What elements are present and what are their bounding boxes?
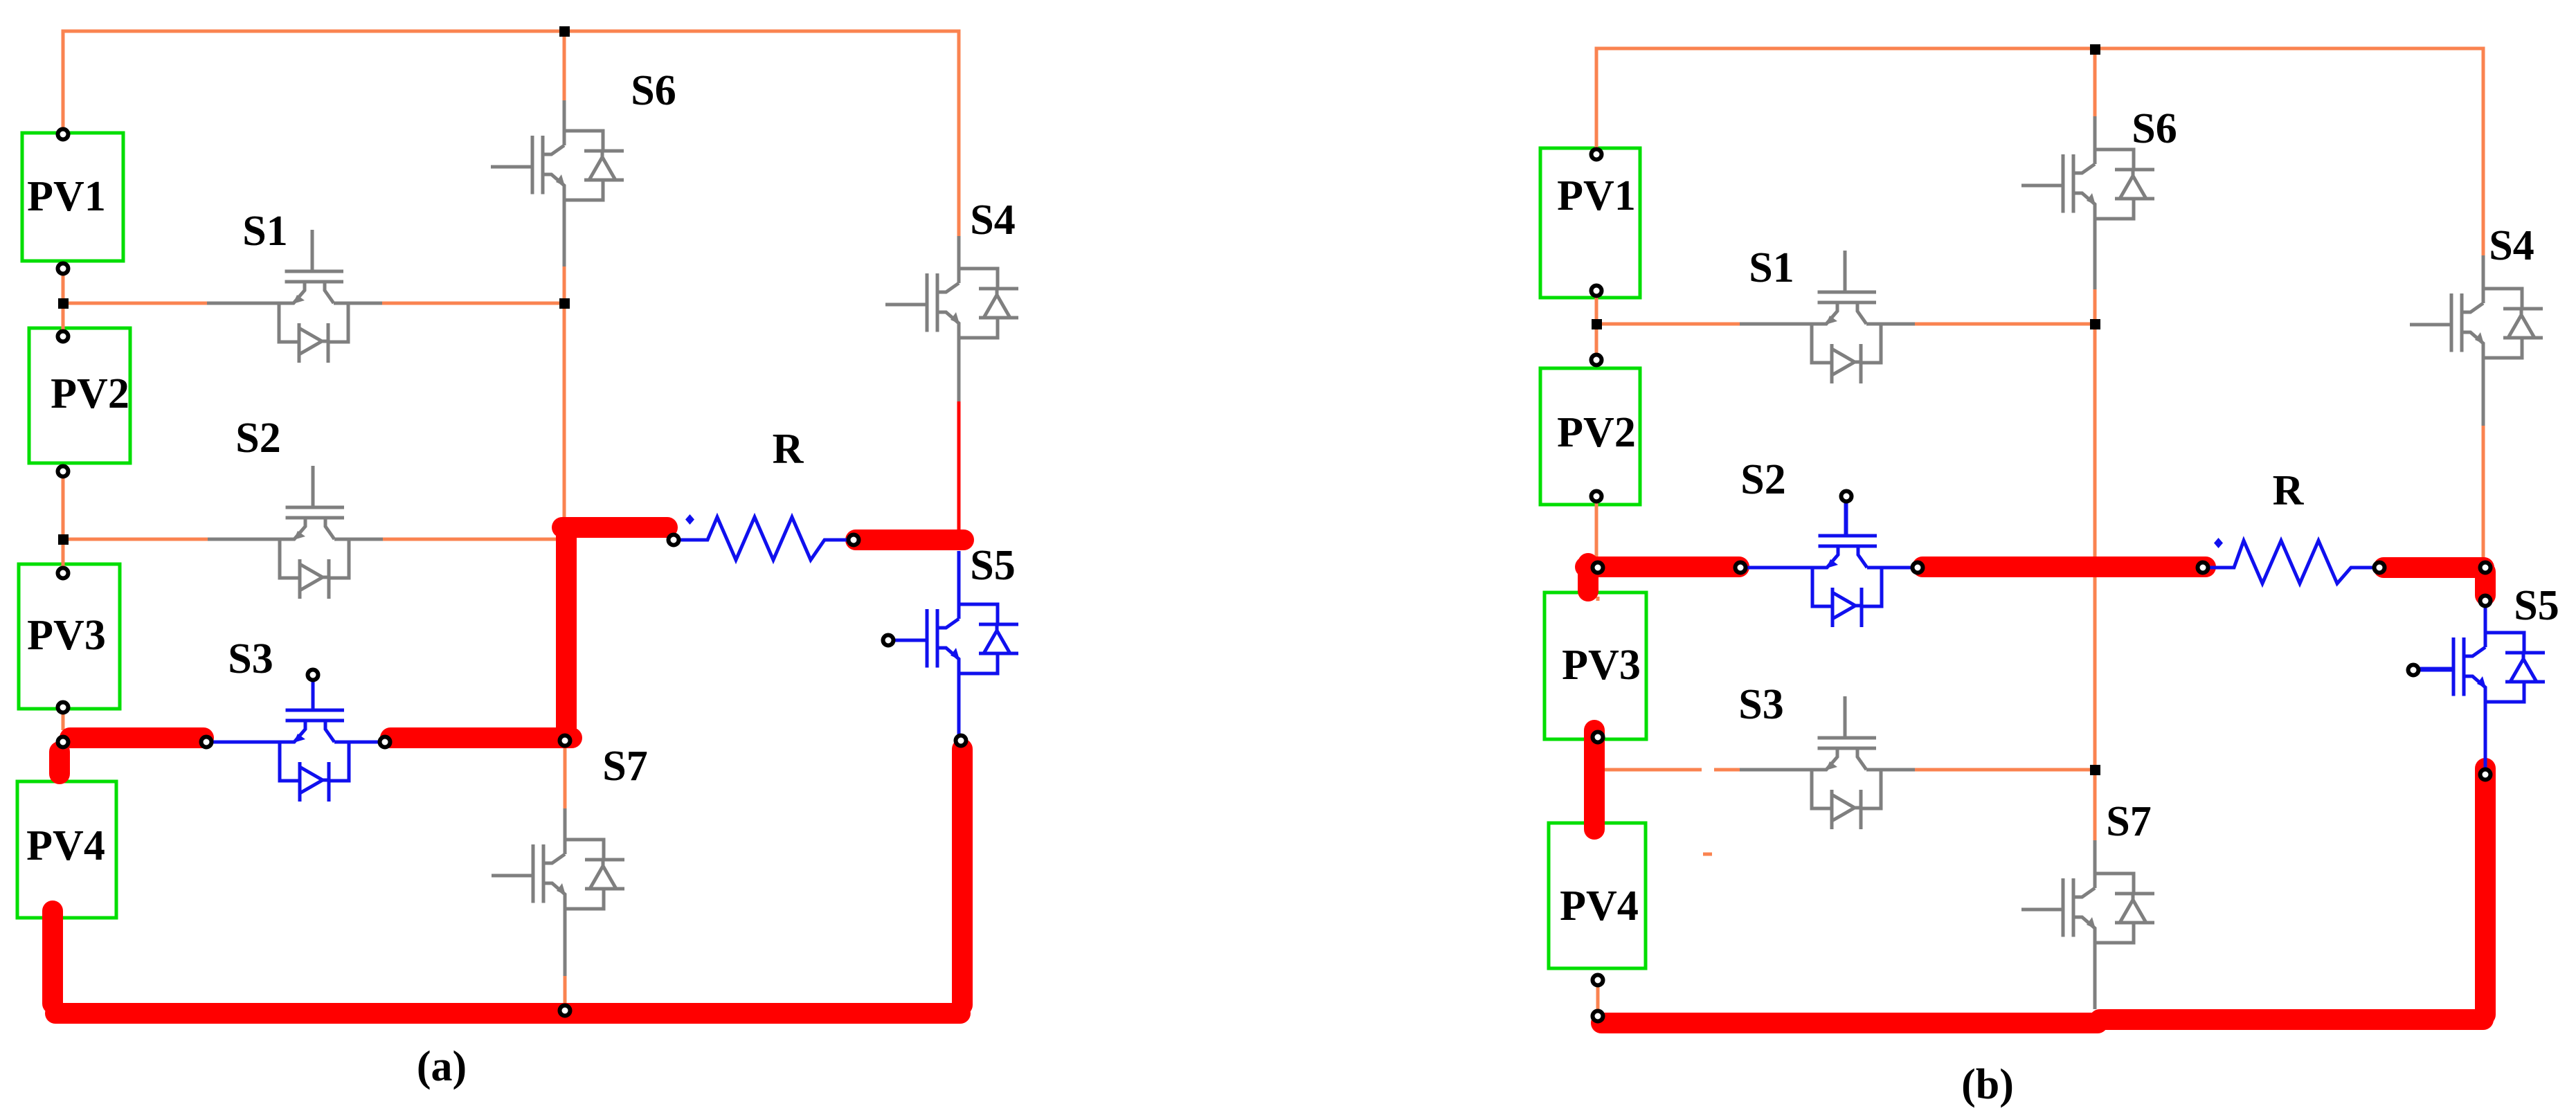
svg-text:S4: S4 bbox=[2489, 222, 2534, 269]
svg-text:(b): (b) bbox=[1961, 1061, 2014, 1108]
svg-text:S2: S2 bbox=[1740, 456, 1785, 503]
svg-text:S1: S1 bbox=[242, 208, 287, 255]
svg-text:(a): (a) bbox=[417, 1043, 467, 1090]
svg-text:PV2: PV2 bbox=[51, 370, 129, 417]
svg-text:S3: S3 bbox=[228, 635, 273, 682]
svg-text:S2: S2 bbox=[235, 415, 280, 462]
svg-text:PV4: PV4 bbox=[26, 822, 105, 869]
svg-text:R: R bbox=[773, 426, 804, 473]
svg-text:PV4: PV4 bbox=[1560, 883, 1639, 930]
svg-text:PV3: PV3 bbox=[1562, 642, 1641, 689]
svg-text:S1: S1 bbox=[1749, 244, 1794, 291]
svg-text:PV1: PV1 bbox=[27, 173, 106, 220]
svg-text:S7: S7 bbox=[2106, 798, 2151, 845]
svg-text:S6: S6 bbox=[2132, 105, 2177, 152]
svg-text:S5: S5 bbox=[970, 542, 1015, 589]
svg-text:PV2: PV2 bbox=[1557, 409, 1636, 456]
svg-text:S7: S7 bbox=[602, 743, 647, 790]
svg-text:S6: S6 bbox=[631, 67, 676, 114]
svg-text:S5: S5 bbox=[2514, 582, 2559, 629]
svg-text:PV1: PV1 bbox=[1557, 172, 1636, 219]
svg-text:S3: S3 bbox=[1738, 681, 1783, 728]
svg-text:PV3: PV3 bbox=[27, 612, 106, 659]
svg-text:R: R bbox=[2273, 467, 2305, 514]
svg-text:S4: S4 bbox=[970, 197, 1015, 244]
